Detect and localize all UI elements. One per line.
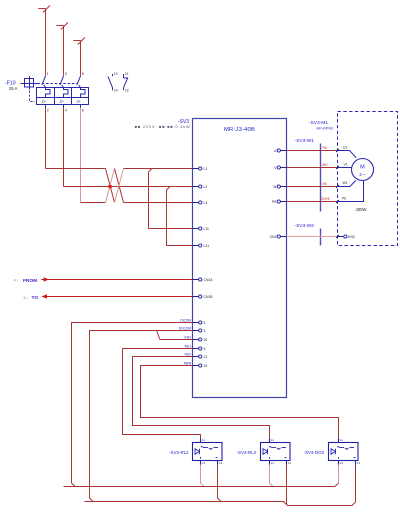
auxiliary contact NC labels [125,72,129,93]
svg-text:MR-J3-40B: MR-J3-40B [224,127,255,133]
wire module DO3 pin14 drop [355,465,357,503]
svg-text:3: 3 [65,72,67,76]
svg-text:U1: U1 [343,145,347,149]
wire MBR pin19 to module DO3 coil [141,366,339,439]
svg-text:12: 12 [271,461,275,465]
wire DOCOM pin3 to bus B [90,331,193,502]
relay SV3-DO3 box [329,439,359,465]
wire L2 horizontal through transposition to drive [64,186,193,188]
svg-text:5: 5 [82,72,84,76]
wire relay RL3 pin14 drop [286,465,288,506]
wire module DO3 pin12 drop [338,465,340,484]
svg-text:9: 9 [204,347,206,351]
svg-text:HF-KP43: HF-KP43 [317,125,334,130]
wire GNYE drive to motor [287,201,338,203]
junction dot in transposition [108,185,111,188]
svg-text:M: M [360,165,365,171]
svg-text:PE: PE [342,197,347,201]
svg-text:-SV3-DO3: -SV3-DO3 [304,450,325,455]
svg-text:L11: L11 [204,227,210,231]
svg-text:21: 21 [125,72,129,76]
pin W [273,185,286,189]
wire FROM to CN1A [41,279,192,281]
relay SV3-RL2 pin numbers [202,438,223,465]
motor terminal tick PE [336,200,339,203]
svg-text:11: 11 [340,438,343,442]
svg-text:14: 14 [114,89,118,93]
wire L1 supply vertical [45,9,47,76]
svg-text:1: 1 [47,72,49,76]
svg-text:-SV3-RL2: -SV3-RL2 [169,450,189,455]
svg-text:U: U [274,149,277,153]
node L1 supply interruption point [38,6,50,13]
motor M1 dashed enclosure [338,112,398,246]
pin L1 [193,167,208,171]
wire L3 transposition to drive [124,202,193,204]
svg-text:V1: V1 [344,162,348,166]
breaker F10 top terminal labels 1 3 5 [47,72,84,76]
svg-text:3: 3 [204,329,206,333]
relay SV3-RL2 box [193,439,223,465]
motor terminal tick W1 [336,185,339,188]
auxiliary contact NO 13-14 [108,74,113,90]
pin L11 [193,227,210,231]
svg-text:I>: I> [77,99,81,104]
pin 20 [184,336,207,342]
wire relay RL2 pin12 drop [201,465,205,487]
wire RD2 pin12 to relay RL3 coil [133,357,270,439]
pin PE [272,200,287,204]
motor wire V1 [338,167,352,169]
svg-text:I>: I> [60,99,64,104]
svg-text:-SV3-RL3: -SV3-RL3 [237,450,257,455]
svg-text:4 /: 4 / [14,278,19,283]
svg-text:WH: WH [322,163,328,167]
wire L1 transposition to drive [124,168,193,170]
wire L2 supply vertical [63,26,65,76]
svg-text:5: 5 [204,321,206,325]
svg-text:2: 2 [47,109,49,113]
svg-text:BK: BK [323,182,328,186]
svg-text:6: 6 [82,109,84,113]
motor terminal tick V1 [336,166,339,169]
cable SV3-W2 [320,229,322,246]
circuit breaker F10 thermal release pole1 [46,88,51,98]
motor wire W1 [338,180,356,186]
FROM arrow head [44,277,49,282]
motor wire PE [338,181,364,202]
wire BK drive to motor [287,186,338,188]
circuit breaker F10 contact arm pole2 [60,76,64,88]
breaker F10 bottom terminal labels 2 4 6 [47,109,84,113]
svg-text:L3: L3 [204,201,208,205]
wire L3 horizontal into transposition [81,202,106,204]
bus B DOCOM bottom horizontal with jog [85,502,356,506]
svg-text:FROM: FROM [23,278,37,284]
pin L21 [193,244,210,248]
pin V [274,166,286,170]
pin 5 [180,319,205,325]
svg-text:GNYE: GNYE [321,197,331,201]
wire RD drive to motor [287,150,338,152]
svg-text:11: 11 [271,438,274,442]
wire phase3 vertical breaker to L3 level [80,108,82,203]
cable SV3-W1 [320,144,322,212]
svg-text:W: W [273,185,277,189]
auxiliary contact NO labels [114,72,118,93]
relay SV3-DO3 pin numbers [340,438,361,465]
wire relay RL3 pin12 drop [270,465,274,487]
svg-text:14: 14 [219,461,223,465]
circuit breaker F10 body box [37,88,89,105]
wire phase1 vertical breaker to L1 level [45,108,47,169]
wire L1 horizontal into transposition [46,168,106,170]
svg-text:22: 22 [125,89,129,93]
motor encoder pin ENC [338,235,356,239]
relay SV3-RL3 pin numbers [271,438,292,465]
svg-text:V: V [274,166,277,170]
svg-text:ENC: ENC [348,235,356,239]
wire WH drive to motor [287,167,338,169]
svg-text:RD: RD [323,146,328,150]
circuit breaker F10 thermal release pole2 [64,88,69,98]
svg-text:25 A: 25 A [9,86,18,91]
svg-text:14: 14 [288,461,292,465]
wire relay RL2 pin14 drop [218,465,222,502]
pin 12 [185,353,208,359]
circuit breaker F10 operator symbol [21,76,38,90]
relay SV3-RL2 opto symbol [195,446,218,458]
circuit breaker F10 operator linkage elbow dashed [30,91,36,102]
svg-text:L2: L2 [204,185,208,189]
svg-text:■■ 220V ,■■ ■■:0.4kW: ■■ 220V ,■■ ■■:0.4kW [135,124,191,129]
svg-text:20: 20 [204,338,208,342]
motor wire U1 [338,151,357,158]
svg-text:L21: L21 [204,244,210,248]
circuit breaker F10 thermal release pole3 [81,88,86,98]
node L3 supply interruption point [73,38,85,45]
pin U [274,149,286,153]
svg-text:11: 11 [202,438,205,442]
svg-text:CN1A: CN1A [204,278,214,282]
wire RD1 pin9 to relay RL2 coil [123,349,201,439]
svg-text:PE: PE [272,200,277,204]
pin 3 [179,327,206,333]
svg-text:3 ~: 3 ~ [359,172,366,177]
servo drive U1 block MR-J3-40B [193,119,287,398]
wire L3 supply vertical [80,41,82,76]
svg-text:14: 14 [357,461,361,465]
wire encoder CN2 to motor [287,236,338,238]
pin 19 [184,362,207,368]
svg-text:13: 13 [114,72,118,76]
pin L3 [193,201,208,205]
svg-text:-SV3-W2: -SV3-W2 [295,223,315,229]
relay SV3-DO3 opto symbol [331,446,356,458]
svg-text:W1: W1 [343,181,348,185]
svg-text:4: 4 [65,109,67,113]
node L2 supply interruption point [56,23,68,30]
svg-text:I>: I> [42,99,46,104]
svg-text:CN1B: CN1B [204,295,214,299]
svg-text:12: 12 [202,461,206,465]
TO arrow head [41,294,47,299]
svg-text:12: 12 [204,355,208,359]
phase transposition crossing diagonals [106,169,124,203]
motor M1 circle [352,159,374,181]
motor terminal tick U1 [336,149,339,152]
wire branch tap to L11 [149,169,193,229]
svg-text:CN2: CN2 [270,235,277,239]
pin CN1A [193,278,214,282]
circuit breaker F10 magnetic release I> labels [42,99,81,104]
wire DICOM pin5 to bus A [72,323,193,487]
auxiliary contact NC 21-22 [124,74,128,90]
pin L2 [193,185,208,189]
relay SV3-RL3 opto symbol [263,446,287,458]
pin CN1B [193,295,214,299]
pin CN2 [270,235,287,239]
bus A DICOM bottom horizontal [64,483,339,487]
svg-text:19: 19 [204,364,208,368]
svg-text:400W: 400W [356,207,367,212]
relay SV3-RL3 box [261,439,291,465]
svg-text:4 /: 4 / [23,295,28,300]
wire phase2 vertical breaker to L2 level [63,108,65,187]
svg-text:L1: L1 [204,167,208,171]
wire EM1 pin20 tap onto DOCOM wire [157,331,193,340]
wire branch tap to L21 [167,187,193,246]
svg-text:-SV3-W1: -SV3-W1 [295,138,315,144]
wire CN1B to TO [45,296,193,298]
circuit breaker F10 linkage dashed [38,83,79,85]
circuit breaker F10 contact arm pole3 [77,76,81,88]
circuit breaker F10 bottom stubs [46,105,81,108]
svg-text:12: 12 [340,461,344,465]
circuit breaker F10 contact arm pole1 [42,76,46,88]
pin 9 [185,345,206,351]
motor terminal tick ENC [336,235,339,238]
svg-text:TO: TO [32,295,39,301]
